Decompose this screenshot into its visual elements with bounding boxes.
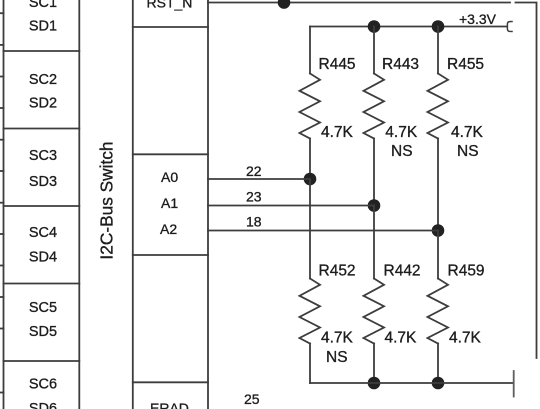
node A1 junction	[368, 199, 381, 212]
svg-text:R459: R459	[448, 263, 485, 280]
svg-text:4.7K: 4.7K	[321, 330, 354, 347]
node A0 junction	[304, 173, 317, 186]
section divider lines of right body	[133, 27, 208, 382]
node junction bottom wire / R459	[432, 377, 445, 390]
wire +3.3V rail	[310, 26, 507, 28]
svg-text:SC1: SC1	[29, 0, 57, 11]
resistor R459 top lead wire	[437, 231, 439, 279]
svg-text:R443: R443	[382, 56, 419, 73]
svg-text:A2: A2	[160, 221, 177, 237]
node junction +3.3V / R443	[368, 20, 381, 33]
svg-text:SC4: SC4	[29, 225, 57, 241]
svg-text:SD6: SD6	[29, 401, 57, 409]
svg-text:NS: NS	[391, 143, 413, 160]
resistor R455 body	[428, 74, 449, 139]
svg-text:NS: NS	[326, 349, 348, 366]
wire pin 18 / A2	[208, 230, 438, 232]
wire pin 22 / A0	[208, 178, 310, 180]
resistor R445 body	[300, 74, 321, 139]
resistor R443 bottom lead wire	[373, 139, 375, 206]
resistor R442 body	[364, 279, 385, 344]
svg-text:4.7K: 4.7K	[385, 330, 418, 347]
svg-text:18: 18	[246, 214, 262, 230]
node junction bottom wire / R442	[368, 377, 381, 390]
svg-text:SC6: SC6	[29, 376, 57, 392]
wire RST_N net	[208, 2, 510, 4]
svg-text:SD4: SD4	[29, 250, 57, 266]
node A2 junction	[432, 224, 445, 237]
svg-text:4.7K: 4.7K	[451, 124, 484, 141]
svg-text:23: 23	[246, 189, 262, 205]
resistor R443 top lead wire	[373, 27, 375, 74]
svg-text:4.7K: 4.7K	[449, 330, 482, 347]
resistor R445 top lead wire	[309, 27, 311, 74]
svg-text:+3.3V: +3.3V	[459, 11, 497, 27]
left-edge pin stubs (wires) of left body	[0, 13, 4, 392]
resistor R452 bottom lead wire	[309, 344, 311, 384]
svg-text:RST_N: RST_N	[147, 0, 193, 11]
svg-text:R442: R442	[384, 263, 421, 280]
svg-text:SD3: SD3	[29, 174, 57, 190]
svg-text:SD2: SD2	[29, 95, 57, 111]
resistor R452 body	[300, 279, 321, 344]
wire pin 23 / A1	[208, 205, 374, 207]
resistor R452 top lead wire	[309, 179, 311, 279]
resistor R455 top lead wire	[437, 27, 439, 74]
border frame corner of adjacent sheet object	[516, 3, 537, 359]
svg-text:R455: R455	[447, 56, 484, 73]
svg-text:SC3: SC3	[29, 148, 57, 164]
svg-text:25: 25	[244, 391, 260, 407]
svg-text:4.7K: 4.7K	[385, 124, 418, 141]
resistor R445 bottom lead wire	[309, 139, 311, 180]
svg-text:NS: NS	[457, 143, 479, 160]
svg-text:4.7K: 4.7K	[321, 124, 354, 141]
resistor R459 bottom lead wire	[437, 344, 439, 384]
op-amp U? : I2C-bus switch symbol, right section body (control pins)	[133, 0, 208, 409]
svg-text:SD1: SD1	[29, 19, 57, 35]
svg-text:ERAD: ERAD	[150, 400, 189, 409]
resistor R455 bottom lead wire	[437, 139, 439, 231]
off-page connector for +3.3V	[507, 22, 512, 32]
svg-text:I2C-Bus Switch: I2C-Bus Switch	[97, 141, 117, 259]
op-amp U? : I2C-bus switch symbol, left section body (SC/SD pins)	[4, 0, 80, 409]
resistor R442 bottom lead wire	[373, 344, 375, 384]
svg-text:A0: A0	[161, 169, 178, 185]
svg-text:A1: A1	[161, 195, 178, 211]
resistor R443 body	[364, 74, 385, 139]
svg-text:R452: R452	[319, 263, 356, 280]
svg-text:22: 22	[246, 163, 262, 179]
svg-text:R445: R445	[319, 56, 356, 73]
svg-text:SC2: SC2	[29, 72, 57, 88]
resistor R459 body	[428, 279, 449, 344]
node junction on RST_N wire	[278, 0, 291, 9]
wire bottom pull-down rail	[310, 382, 514, 384]
svg-text:SC5: SC5	[29, 300, 57, 316]
section divider lines of left body	[4, 51, 80, 361]
terminator bar at end of bottom wire	[513, 371, 515, 397]
svg-text:SD5: SD5	[29, 324, 57, 340]
resistor R442 top lead wire	[373, 206, 375, 279]
node junction +3.3V / R455	[432, 20, 445, 33]
